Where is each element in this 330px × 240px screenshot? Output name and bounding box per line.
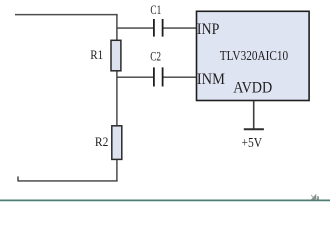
capacitor C1 xyxy=(154,19,163,37)
op-amp codec U1 TLV320AIC10 body xyxy=(197,11,310,100)
power rail +5V bar xyxy=(244,128,264,130)
svg-text:INP: INP xyxy=(197,21,220,38)
wire: main vertical bus through R1 and R2 xyxy=(116,14,118,181)
capacitor C2 xyxy=(154,67,163,86)
wire: AVDD pin to +5V supply xyxy=(253,101,255,130)
svg-text:C1: C1 xyxy=(150,2,161,17)
svg-text:C2: C2 xyxy=(150,50,161,64)
wire: node B branch to C2 xyxy=(117,76,153,78)
resistor R2 xyxy=(112,126,122,160)
wire: C1 to INP pin xyxy=(163,27,197,29)
svg-text:R1: R1 xyxy=(90,48,103,62)
svg-text:R2: R2 xyxy=(95,135,109,149)
wire: C2 to INM pin xyxy=(163,76,197,78)
wire: top input horizontal to node A xyxy=(15,14,118,16)
svg-text:AVDD: AVDD xyxy=(233,80,272,97)
wire: bottom return horizontal xyxy=(18,180,118,182)
svg-text:INM: INM xyxy=(197,71,225,88)
svg-text:+5V: +5V xyxy=(242,136,263,151)
wire: node A branch to C1 xyxy=(117,27,153,29)
svg-text:TLV320AIC10: TLV320AIC10 xyxy=(220,48,289,63)
resistor R1 xyxy=(111,40,121,71)
wire: bottom left stub xyxy=(17,176,19,181)
